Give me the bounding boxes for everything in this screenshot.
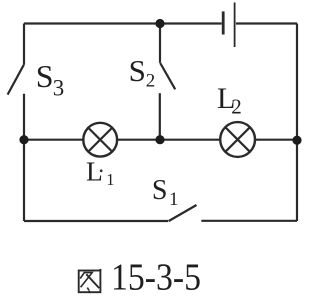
svg-text:15-3-5: 15-3-5	[111, 257, 201, 299]
svg-text:S: S	[129, 53, 146, 88]
svg-text:S: S	[36, 58, 54, 94]
svg-text:1: 1	[169, 189, 179, 210]
svg-text:2: 2	[231, 95, 242, 119]
svg-text:2: 2	[146, 70, 156, 91]
svg-text:1: 1	[106, 170, 114, 189]
svg-text:S: S	[152, 175, 168, 206]
svg-text:3: 3	[53, 76, 65, 101]
